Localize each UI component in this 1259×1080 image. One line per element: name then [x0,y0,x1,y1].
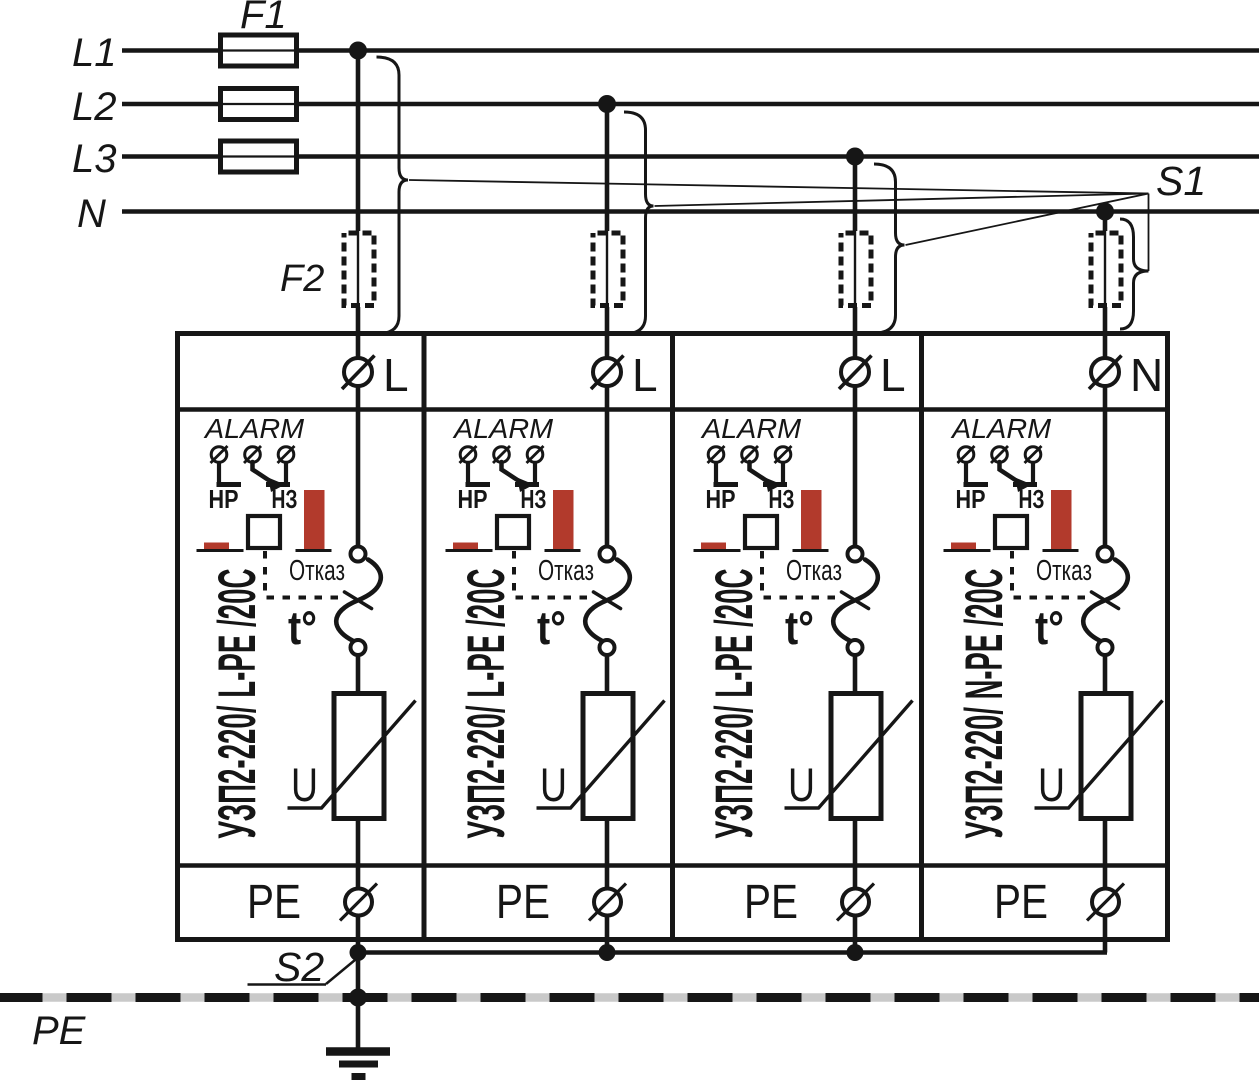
module enclosure box [178,334,1168,940]
node PE collector dot 1 [350,944,367,961]
ALARM terminal 2 module 2 [493,446,510,463]
type label module 2 [457,569,516,839]
mechanical link (dashed) module 2 [514,551,595,598]
mechanical link (dashed) module 4 [1012,551,1093,598]
svg-text:Отказ: Отказ [289,555,345,587]
H3 label module 4 [1019,484,1045,514]
relay contact HP (NO) module 4 [964,462,989,485]
PE bus gray underlay [0,993,1259,1002]
wire to ground [356,953,361,1052]
wire switch to varistor module 3 [853,655,858,694]
HP label module 3 [706,484,736,514]
brace for module 4 drop wire [1120,219,1149,329]
link cross stroke module 2 [594,592,621,609]
svg-text:ALARM: ALARM [452,413,554,444]
enclosure divider 2 [670,334,675,940]
fuse F2 (dashed) module 3 [841,233,871,306]
PE strip label module 2 [496,876,550,929]
svg-text:НЗ: НЗ [1019,484,1045,514]
svg-text:ALARM: ALARM [950,413,1052,444]
ALARM terminal 1 module 2 [460,446,477,463]
varistor U module 3 [785,694,913,819]
wire L2 bus line [122,102,1259,107]
indicator tall red bar module 4 [1043,490,1079,551]
indicator small red bar module 3 [694,543,741,551]
wire drop from L2 to module 2 (upper) [605,104,610,231]
svg-text:ALARM: ALARM [700,413,802,444]
varistor U module 2 [537,694,665,819]
type label module 1 [208,569,267,839]
relay contact blade module 3 [750,462,783,492]
fuse F2 (dashed) module 4 [1091,233,1121,306]
svg-text:НР: НР [706,484,736,514]
svg-text:U: U [540,758,567,811]
indicator window module 3 [745,516,777,548]
H3 label module 3 [769,484,795,514]
ALARM label module 4 [950,413,1052,444]
t-degree label module 1 [288,601,317,654]
svg-text:U: U [788,758,815,811]
relay contact blade module 4 [1000,462,1033,492]
fuse F1 on L3 [221,141,297,172]
svg-text:N: N [1130,349,1163,401]
brace for module 3 drop wire [874,164,905,333]
t-degree label module 4 [1035,601,1064,654]
svg-text:УЗП2-220/ L-PE /20C: УЗП2-220/ L-PE /20C [457,569,516,839]
PE bus dashed line [0,993,1259,1002]
ALARM terminal 1 module 1 [211,446,228,463]
Otkaz label module 4 [1036,555,1092,587]
HP label module 2 [458,484,488,514]
wire L1 bus line [122,48,1259,53]
node junction dot on L1 [349,42,367,60]
wire N bus line [122,209,1259,214]
t-degree label module 3 [785,601,814,654]
svg-text:S1: S1 [1156,158,1206,204]
node PE collector dot 2 [599,944,616,961]
relay contact HP (NO) module 2 [466,462,491,485]
relay contact blade module 2 [502,462,535,492]
Otkaz label module 2 [538,555,594,587]
ALARM terminal 3 module 4 [1025,446,1042,463]
svg-text:PE: PE [496,876,550,929]
svg-text:Отказ: Отказ [538,555,594,587]
terminal PE module 4 [1087,884,1124,921]
HP label module 1 [209,484,239,514]
S2 pointer line [326,958,358,985]
ALARM label module 2 [452,413,554,444]
svg-text:t°: t° [1035,601,1064,654]
indicator window module 2 [497,516,529,548]
terminal L module 1 [342,349,409,401]
svg-text:F2: F2 [280,258,324,300]
svg-text:Отказ: Отказ [1036,555,1092,587]
HP label module 4 [956,484,986,514]
svg-text:НЗ: НЗ [521,484,547,514]
ALARM terminal 2 module 4 [991,446,1008,463]
wire switch to varistor module 4 [1103,655,1108,694]
enclosure divider 1 [422,334,427,940]
S1 pointer line from brace 4 [1148,194,1150,272]
indicator window module 4 [995,516,1027,548]
svg-text:Отказ: Отказ [786,555,842,587]
fuse F1 on L1 [221,35,297,66]
S1 pointer line from brace 3 [906,194,1149,246]
wire switch to varistor module 2 [605,655,610,694]
relay contact H3 (NC) module 2 [515,462,539,485]
svg-text:НР: НР [956,484,986,514]
svg-text:F1: F1 [240,0,287,37]
svg-text:НР: НР [209,484,239,514]
relay contact HP (NO) module 1 [217,462,242,485]
node PE collector dot 3 [847,944,864,961]
svg-text:S2: S2 [274,944,324,990]
wire drop from L1 to module 1 (upper) [356,51,361,232]
S1 pointer line from brace 2 [655,194,1149,207]
ALARM terminal 2 module 1 [244,446,261,463]
fuse F2 (dashed) module 2 [593,233,623,306]
ALARM label module 3 [700,413,802,444]
svg-text:PE: PE [32,1009,87,1053]
thermal switch module 3 [833,547,878,656]
terminal PE module 3 [837,884,874,921]
indicator window module 1 [248,516,280,548]
enclosure divider 3 [919,334,924,940]
wire varistor to PE module 1 [356,818,361,953]
svg-text:НР: НР [458,484,488,514]
svg-text:PE: PE [744,876,798,929]
indicator small red bar module 4 [944,543,991,551]
terminal L module 3 [839,349,906,401]
terminal PE module 1 [340,884,377,921]
ALARM terminal 1 module 4 [958,446,975,463]
relay contact H3 (NC) module 4 [1013,462,1037,485]
ALARM terminal 3 module 1 [278,446,295,463]
thermal switch module 2 [585,547,630,656]
enclosure PE strip line [175,863,1170,868]
svg-text:НЗ: НЗ [769,484,795,514]
svg-text:U: U [1038,758,1065,811]
svg-text:L1: L1 [72,31,117,75]
ALARM terminal 2 module 3 [741,446,758,463]
relay contact H3 (NC) module 1 [266,462,290,485]
PE strip label module 4 [994,876,1048,929]
PE strip label module 1 [247,876,301,929]
node junction dot on L2 [598,95,616,113]
PE strip label module 3 [744,876,798,929]
fuse F2 (dashed) module 1 [344,233,374,306]
indicator tall red bar module 3 [793,490,829,551]
wire L3 bus line [122,154,1259,159]
type label module 3 [705,569,764,839]
terminal L module 2 [591,349,658,401]
svg-text:t°: t° [537,601,566,654]
link cross stroke module 3 [842,592,869,609]
link cross stroke module 4 [1092,592,1119,609]
ALARM label module 1 [203,413,305,444]
relay contact blade module 1 [253,462,286,492]
svg-text:L: L [383,349,409,401]
varistor U module 4 [1035,694,1163,819]
H3 label module 1 [272,484,298,514]
terminal PE module 2 [589,884,626,921]
wire drop from N to module 4 (upper) [1103,212,1108,232]
svg-text:УЗП2-220/ L-PE /20C: УЗП2-220/ L-PE /20C [208,569,267,839]
mechanical link (dashed) module 1 [265,551,346,598]
thermal switch module 4 [1083,547,1128,656]
wire varistor to PE module 4 [1103,818,1108,953]
wire PE collector line [358,950,1107,955]
indicator small red bar module 1 [197,543,244,551]
svg-text:U: U [291,758,318,811]
svg-text:L3: L3 [72,137,117,181]
varistor U module 1 [288,694,416,819]
node junction dot on L3 [846,148,864,166]
svg-text:L: L [880,349,906,401]
svg-text:t°: t° [785,601,814,654]
Otkaz label module 3 [786,555,842,587]
S1 pointer line from brace 1 [409,180,1149,194]
brace for module 1 drop wire [377,57,409,334]
enclosure top strip line [175,407,1170,412]
Otkaz label module 1 [289,555,345,587]
svg-text:PE: PE [994,876,1048,929]
relay contact HP (NO) module 3 [714,462,739,485]
wire switch to varistor module 1 [356,655,361,694]
wire drop from L3 to module 3 (upper) [853,157,858,232]
indicator tall red bar module 1 [296,490,332,551]
ALARM terminal 3 module 3 [775,446,792,463]
svg-text:PE: PE [247,876,301,929]
thermal switch module 1 [336,547,381,656]
type label module 4 [955,569,1014,839]
H3 label module 2 [521,484,547,514]
svg-text:УЗП2-220/ L-PE /20C: УЗП2-220/ L-PE /20C [705,569,764,839]
fuse F1 on L2 [221,89,297,120]
svg-text:L2: L2 [72,85,117,129]
relay contact H3 (NC) module 3 [763,462,787,485]
indicator small red bar module 2 [446,543,493,551]
ground symbol [326,1047,390,1056]
link cross stroke module 1 [345,592,372,609]
wire varistor to PE module 3 [853,818,858,953]
mechanical link (dashed) module 3 [762,551,843,598]
svg-text:N: N [77,192,106,236]
ALARM terminal 3 module 2 [527,446,544,463]
indicator tall red bar module 2 [545,490,581,551]
wire varistor to PE module 2 [605,818,610,953]
svg-text:УЗП2-220/ N-PE /20C: УЗП2-220/ N-PE /20C [955,569,1014,839]
node PE bus junction dot [349,989,367,1007]
svg-text:t°: t° [288,601,317,654]
svg-text:L: L [632,349,658,401]
node junction dot on N [1096,203,1114,221]
svg-text:ALARM: ALARM [203,413,305,444]
terminal N module 4 [1089,349,1163,401]
t-degree label module 2 [537,601,566,654]
brace for module 2 drop wire [624,112,654,334]
svg-text:НЗ: НЗ [272,484,298,514]
ALARM terminal 1 module 3 [708,446,725,463]
